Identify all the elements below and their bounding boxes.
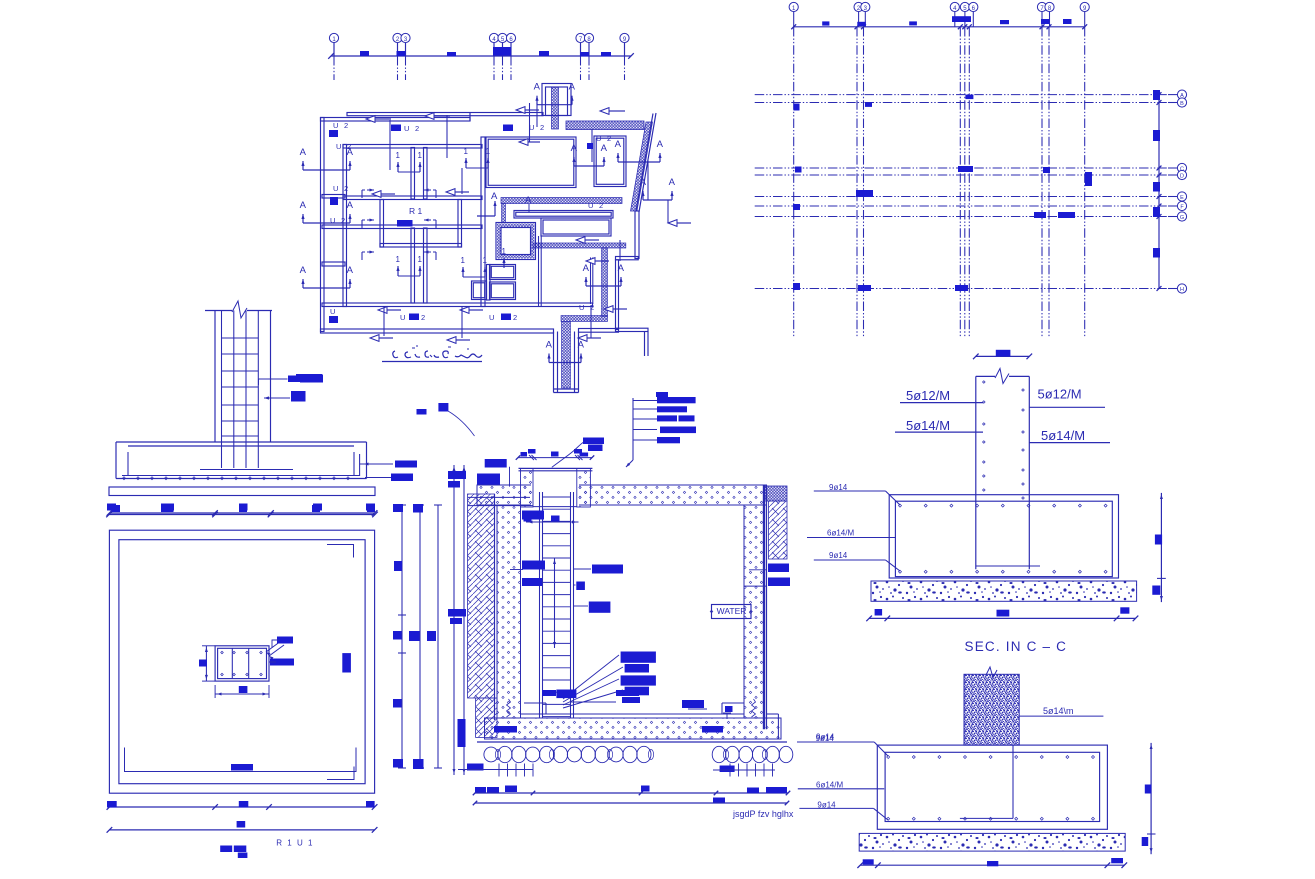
svg-text:2: 2	[540, 123, 544, 132]
axis bubble 3	[405, 43, 407, 57]
secCC blinding stipple	[871, 581, 1137, 601]
axis bubble 5	[502, 43, 504, 57]
tank stones right group	[712, 746, 726, 762]
plan A-arrow group room1 interior	[574, 165, 604, 167]
plan R1U1 bar mark bottom right	[327, 767, 354, 780]
svg-text:1: 1	[486, 147, 491, 156]
plan arabic title underline	[382, 361, 482, 363]
svg-text:U: U	[596, 134, 601, 143]
tank bottom slab	[485, 718, 782, 739]
section D column top break	[205, 310, 232, 312]
plan R1U1 bottom dim line 1	[109, 806, 374, 808]
svg-text:jsgdP fzv hglhx: jsgdP fzv hglhx	[732, 809, 794, 819]
tank bottom dim line 2	[475, 802, 787, 804]
plan tri arrow right mid	[668, 220, 677, 227]
svg-text:A: A	[300, 200, 307, 211]
svg-text:A: A	[347, 200, 354, 211]
plan interior wall V3	[481, 137, 485, 307]
tank shaft dim blobs	[521, 452, 528, 457]
plan top chimney	[542, 84, 571, 116]
plan R1 stamp blob	[397, 220, 413, 227]
plan arabic title	[393, 351, 482, 358]
tank section left tall dim lines	[453, 465, 455, 775]
svg-text:A: A	[534, 82, 541, 93]
plan interior wall H3	[322, 225, 482, 229]
plan left leader blobs of section D	[296, 374, 323, 382]
plan interior wall V1	[343, 145, 347, 307]
svg-text:SEC. IN C – C: SEC. IN C – C	[965, 639, 1068, 654]
tank left wall	[497, 505, 521, 718]
svg-text:R 1: R 1	[409, 206, 423, 216]
svg-text:U: U	[404, 124, 409, 133]
svg-text:U: U	[336, 142, 341, 151]
secH blinding stipple	[859, 833, 1125, 851]
plan R1U1 bottom bar with hooks	[125, 748, 357, 772]
plan A-arrow tank left	[494, 201, 496, 216]
plan R1U1 bottom dim line 2	[109, 829, 374, 831]
plan R1U1 bar mark top right	[327, 545, 354, 558]
svg-text:2: 2	[607, 134, 611, 143]
svg-text:WATER: WATER	[717, 606, 747, 616]
plan hatch band 1	[501, 198, 622, 204]
bottom left stamp blobs	[220, 846, 232, 853]
plan tri arrow corridor	[516, 107, 525, 114]
svg-text:1: 1	[464, 147, 469, 156]
plan one-marks row1 V2	[397, 162, 399, 172]
secCC column rebar dots	[983, 381, 986, 384]
secCC footing bottom rebar dots	[899, 570, 902, 573]
plan tri arrows top right	[600, 108, 609, 115]
plan right slant hatch band	[631, 122, 653, 211]
plan tri arrows below plan	[370, 335, 379, 342]
tank interior floor line	[521, 713, 745, 715]
svg-text:U: U	[529, 123, 534, 132]
plan interior walls V2 pair upper	[411, 148, 415, 200]
svg-text:5ø12/M: 5ø12/M	[1038, 387, 1082, 402]
plan outer left wall	[321, 118, 325, 332]
grid right dim blobs	[1153, 90, 1160, 100]
plan R1U1 outer square	[109, 530, 374, 793]
tank left slab leader lines	[468, 496, 530, 498]
secCC column top dim	[976, 355, 1030, 357]
axis bubble 8	[588, 43, 590, 57]
tank shaft top leader blobs	[583, 438, 604, 445]
svg-text:A: A	[491, 191, 498, 202]
svg-text:A: A	[546, 340, 553, 351]
plan bottom right small blob	[656, 392, 668, 397]
svg-text:1: 1	[461, 256, 466, 265]
plan tri arrows mid	[446, 189, 455, 196]
plan A-arrow group hatch strip	[586, 285, 621, 287]
svg-text:9ø14: 9ø14	[829, 551, 848, 560]
plan bathroom cells	[472, 281, 487, 300]
plan R1 corner step marks	[362, 189, 374, 191]
section D column ties	[222, 337, 259, 339]
plan R1U1 column left dim	[205, 646, 207, 681]
svg-text:A: A	[618, 263, 625, 274]
plan R1U1 right rotated text blob	[342, 653, 351, 672]
section D blinding slab	[109, 487, 375, 496]
svg-text:U: U	[330, 216, 335, 225]
tank shaft curved leader	[552, 442, 585, 468]
tank access shaft opening	[531, 484, 579, 506]
svg-text:1: 1	[418, 151, 423, 160]
plan one-marks row1 V3	[465, 158, 467, 168]
secH footing bottom rebar dots	[887, 817, 890, 820]
secH footing outer	[877, 745, 1107, 829]
plan A-arrow group left row2	[303, 222, 350, 224]
tank ladder vertical dim arrows	[554, 558, 556, 648]
svg-text:U: U	[489, 313, 494, 322]
tank left big leader blobs	[485, 459, 507, 468]
secH column axis bar	[1012, 745, 1014, 818]
svg-text:A: A	[578, 340, 585, 351]
plan R1 room walls	[380, 200, 384, 248]
tank bottom slab right step	[767, 713, 779, 715]
axis dashdot line	[333, 56, 335, 80]
plan R1U1 top dimension line	[109, 512, 374, 514]
section D column rebar verticals	[221, 311, 223, 469]
tank bottom leader right	[720, 766, 735, 773]
svg-text:A: A	[669, 177, 676, 188]
tank right herringbone strip	[769, 501, 788, 559]
grid horizontal axes dash-dot	[755, 94, 1168, 96]
plan chimney hatch strip	[552, 87, 559, 129]
tank bottom inner blobs	[616, 690, 639, 696]
plan A-arrow group right room	[618, 161, 660, 163]
plan vertical leader lines	[389, 120, 391, 170]
tank top slab	[477, 485, 767, 505]
secCC column top break	[976, 375, 995, 377]
svg-text:6ø14/M: 6ø14/M	[827, 529, 854, 538]
svg-text:5ø12/M: 5ø12/M	[906, 388, 950, 403]
grid vertical axes dash-dot	[793, 27, 795, 338]
section D footing bottom rebar dots	[123, 477, 126, 480]
tank mid-right leader blobs	[574, 568, 592, 570]
svg-text:U: U	[333, 121, 338, 130]
svg-text:U: U	[330, 307, 335, 316]
svg-text:A: A	[640, 177, 647, 188]
plan A-arrow group outside right	[643, 199, 672, 201]
section D column outer faces	[214, 311, 216, 443]
axis dashdot line	[580, 56, 582, 80]
tank lower leader fan	[563, 655, 619, 699]
plan big top-right room	[486, 137, 576, 188]
vertical dim stack line 2	[419, 505, 421, 768]
tank shaft left wall	[521, 469, 534, 508]
plan R1U1 column rebar dots	[221, 651, 224, 654]
tank stone small circles	[495, 750, 500, 760]
tank left earth hatch bottom block	[476, 698, 497, 737]
svg-text:A: A	[583, 263, 590, 274]
plan R1U1 inner square	[119, 540, 365, 784]
plan left small wall H2b	[322, 262, 345, 266]
tank left earth hatch strip	[468, 494, 495, 698]
svg-text:G: G	[1180, 215, 1184, 221]
plan bottom shaft hatch strip	[562, 322, 571, 389]
svg-text:2: 2	[590, 303, 594, 312]
tank right wall leader blobs	[749, 569, 767, 571]
section D leader 1 stirrup label	[259, 379, 288, 385]
svg-text:5ø14/M: 5ø14/M	[1041, 428, 1085, 443]
plan interior wall H1	[343, 145, 482, 149]
axis bubble 1	[333, 43, 335, 57]
plan right slanted outer edge	[639, 113, 656, 212]
tank top right leader stack	[632, 398, 634, 460]
axis strip baseline	[331, 55, 631, 57]
tank inner dim line	[526, 521, 579, 523]
tank stones baseline ticks left	[498, 764, 500, 777]
svg-text:A: A	[657, 139, 664, 150]
plan left small wall H2	[322, 195, 345, 199]
svg-text:U: U	[588, 201, 593, 210]
svg-text:1: 1	[396, 255, 401, 264]
svg-text:A: A	[525, 195, 532, 206]
secH column speckled	[964, 674, 1019, 745]
svg-text:2: 2	[421, 313, 425, 322]
vertical dim stack line 3	[437, 505, 439, 768]
svg-text:D: D	[1180, 173, 1184, 179]
grid axis bubbles top	[793, 12, 795, 27]
svg-text:A: A	[300, 265, 307, 276]
svg-text:A: A	[571, 143, 578, 154]
plan bottom-right room wall	[538, 236, 540, 306]
plan hatched band right of chimney	[566, 121, 644, 130]
grid intersection footing marks	[794, 104, 800, 111]
tank right wall	[744, 505, 764, 718]
secH column top break	[986, 667, 997, 678]
svg-text:2: 2	[599, 201, 603, 210]
tank shaft right wall	[577, 469, 591, 508]
tank left wall leader blob mid2	[522, 578, 542, 586]
svg-text:U: U	[400, 313, 405, 322]
secCC bottom bar line	[976, 565, 1040, 567]
plan A-arrow group left row1	[303, 169, 350, 171]
svg-text:2: 2	[347, 142, 351, 151]
secH footing top rebar dots	[887, 756, 890, 759]
svg-text:1: 1	[483, 256, 488, 265]
svg-text:R 1 U 1: R 1 U 1	[276, 839, 314, 848]
axis bubble 6	[510, 43, 512, 57]
section D dimension line	[109, 514, 375, 516]
tank ladder bottom blob	[556, 690, 576, 699]
axis dashdot line	[624, 56, 626, 80]
svg-text:E: E	[1180, 195, 1184, 201]
tank shaft top lines	[519, 467, 593, 469]
axis dashdot line	[493, 56, 495, 80]
axis bubble 4	[493, 43, 495, 57]
svg-text:B: B	[1180, 101, 1184, 107]
plan R1U1 column fan arrows	[266, 641, 281, 652]
svg-text:U: U	[579, 303, 584, 312]
plan A-arrow group left row3	[303, 287, 350, 289]
plan section cut marks top	[529, 103, 531, 127]
tank shaft dim line	[518, 457, 592, 459]
secCC footing top rebar dots	[899, 504, 902, 507]
plan bottom shaft	[553, 332, 555, 393]
svg-text:A: A	[569, 82, 576, 93]
svg-text:2: 2	[415, 124, 419, 133]
secCC footing outer	[889, 495, 1118, 578]
svg-text:A: A	[300, 147, 307, 158]
plan right vertical hatch strip	[602, 248, 608, 317]
plan R1U1 column leaders	[270, 659, 294, 666]
secCC footing inner	[895, 501, 1112, 576]
svg-text:1: 1	[396, 151, 401, 160]
axis bubble 2	[397, 43, 399, 57]
svg-text:U: U	[333, 184, 338, 193]
svg-text:1: 1	[502, 247, 507, 256]
svg-text:5ø14\m: 5ø14\m	[1043, 706, 1074, 716]
svg-text:2: 2	[513, 313, 517, 322]
tank shaft floor line	[533, 506, 577, 508]
axis dim text blobs	[360, 51, 369, 56]
svg-text:5ø14/M: 5ø14/M	[906, 418, 950, 433]
axis bubble 7	[580, 43, 582, 57]
svg-text:1: 1	[418, 255, 423, 264]
secH bottom dim line	[860, 864, 1124, 866]
WATER label box	[712, 605, 752, 619]
grid top dimension line	[794, 26, 1085, 28]
plan hatch band 2	[533, 243, 626, 248]
plan interior walls V2 pair lower	[411, 228, 415, 303]
grid right dimension line	[1158, 95, 1160, 289]
plan A-arrow band1	[528, 204, 530, 212]
plan hatch L-band to shaft	[561, 316, 608, 322]
grid top dim blobs	[822, 21, 829, 25]
svg-text:A: A	[601, 143, 608, 154]
plan water tank square hatched	[496, 223, 536, 260]
secCC bottom dim line	[869, 617, 1135, 619]
plan bottom outer wall left	[321, 329, 554, 333]
plan R1U1 column bottom dim	[215, 693, 269, 695]
svg-text:H: H	[1180, 287, 1184, 293]
plan bottom outer wall right	[579, 329, 619, 333]
tank bottom corner bars	[524, 702, 546, 704]
plan tri arrow band2	[586, 258, 595, 265]
svg-text:6ø14/M: 6ø14/M	[816, 781, 843, 790]
grid axis bubbles right	[1168, 94, 1177, 96]
plan one-marks row2 V3	[462, 267, 464, 277]
plan hatch vertical strip to tank	[502, 204, 506, 223]
plan R1U1 bottom inner blob	[231, 764, 253, 771]
plan A-arrow group top chimney	[537, 104, 572, 106]
tank bottom dim line 1	[475, 792, 788, 794]
plan tri arrows row2 bottom	[378, 307, 387, 314]
tank bottom slab lower line	[477, 741, 787, 743]
tank bottom springs	[507, 699, 511, 717]
plan outer top wall upper part	[347, 113, 543, 116]
axis dashdot line	[397, 56, 399, 80]
vertical dim stack line 1	[401, 505, 403, 768]
plan A-arrow group bottom shaft	[549, 362, 581, 364]
svg-text:2: 2	[341, 216, 345, 225]
plan corridor room	[514, 211, 613, 219]
plan interior wall Hmid	[343, 196, 482, 200]
tank top-left small blobs	[417, 409, 427, 415]
secCC column faces	[975, 376, 977, 569]
tank bottom leader left	[467, 764, 484, 771]
plan tri arrows top wall	[366, 116, 375, 123]
tank ladder rungs	[543, 496, 571, 498]
tank stones left group	[484, 747, 498, 762]
section D leader 2 bar label	[264, 396, 269, 399]
plan right room U2	[594, 136, 626, 187]
tank lower leader blobs	[621, 652, 656, 663]
plan right mid room	[541, 218, 611, 236]
tank left wall leader blob mid	[510, 569, 523, 571]
tank stones baseline ticks right	[729, 764, 731, 777]
plan one-marks row2 V2	[397, 266, 399, 276]
svg-text:A: A	[347, 265, 354, 276]
axis bubble 9	[624, 43, 626, 57]
section D bottom bar line	[200, 469, 293, 471]
tank left wall leader blob upper	[522, 511, 544, 520]
secCC right dim line	[1160, 493, 1162, 602]
plan R1U1 center column	[215, 646, 269, 681]
secH footing inner	[885, 752, 1100, 821]
secH right dim line	[1150, 743, 1152, 854]
section D right leaders	[359, 454, 361, 476]
svg-text:2: 2	[344, 121, 348, 130]
svg-text:2: 2	[344, 184, 348, 193]
tank right corner hatch block	[765, 486, 787, 501]
plan right edge staircase	[635, 211, 639, 259]
svg-text:A: A	[615, 139, 622, 150]
plan interior wall H4	[322, 303, 593, 307]
tank ladder rails	[539, 492, 541, 718]
section D footing outline	[116, 441, 367, 443]
plan outer top wall lower-left part	[321, 118, 471, 122]
